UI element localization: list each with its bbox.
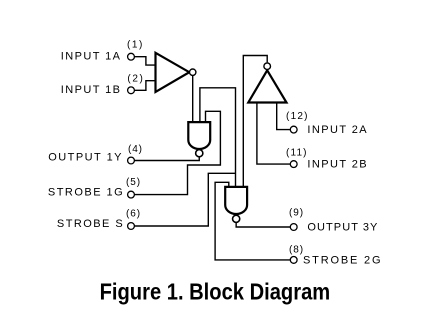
svg-text:INPUT 1A: INPUT 1A xyxy=(61,50,121,62)
svg-text:OUTPUT 3Y: OUTPUT 3Y xyxy=(307,222,378,234)
svg-text:(6): (6) xyxy=(126,208,140,219)
svg-text:(8): (8) xyxy=(289,244,303,255)
svg-text:(4): (4) xyxy=(128,144,142,155)
svg-text:(2): (2) xyxy=(127,74,142,85)
svg-text:Figure 1. Block Diagram: Figure 1. Block Diagram xyxy=(100,278,331,304)
svg-text:(5): (5) xyxy=(126,177,140,188)
svg-text:(12): (12) xyxy=(286,111,308,122)
svg-text:(1): (1) xyxy=(127,40,142,51)
svg-text:(9): (9) xyxy=(289,208,303,219)
svg-text:STROBE 1G: STROBE 1G xyxy=(48,187,123,199)
svg-text:INPUT 2A: INPUT 2A xyxy=(307,124,367,136)
svg-text:STROBE 2G: STROBE 2G xyxy=(303,255,381,267)
svg-text:INPUT 1B: INPUT 1B xyxy=(61,84,120,96)
svg-text:OUTPUT 1Y: OUTPUT 1Y xyxy=(48,151,122,163)
svg-text:(11): (11) xyxy=(286,147,307,158)
svg-text:STROBE S: STROBE S xyxy=(57,218,123,230)
svg-text:INPUT 2B: INPUT 2B xyxy=(307,159,366,171)
